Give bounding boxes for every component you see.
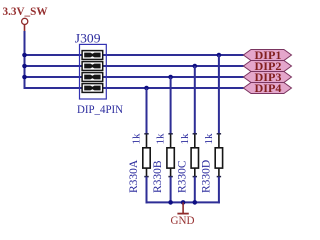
svg-text:3.3V_SW: 3.3V_SW <box>3 4 48 18</box>
resistor R330B <box>152 133 174 193</box>
wire: bottom ground bus <box>146 201 220 203</box>
junction dot ground bus GND stem <box>181 200 186 205</box>
junction dot left bus wire 1 <box>22 53 27 58</box>
wire: vertical branch to R330A <box>146 88 148 134</box>
svg-text:R330B: R330B <box>152 160 164 193</box>
junction dot wire 1 branch <box>217 53 222 58</box>
switch element 3 <box>82 73 103 82</box>
port DIP3 <box>243 72 291 85</box>
switch element 4 <box>82 84 103 93</box>
resistor R330C <box>176 133 198 193</box>
switch element 2 <box>82 62 103 71</box>
port DIP1 <box>243 50 291 63</box>
switch element 1 <box>82 51 103 60</box>
connector J309 body box <box>80 44 107 99</box>
wire 2 horizontal <box>24 65 244 67</box>
svg-text:1k: 1k <box>155 133 167 145</box>
svg-text:R330C: R330C <box>176 160 188 193</box>
junction dot left bus wire 3 <box>22 75 27 80</box>
svg-text:DIP4: DIP4 <box>255 83 282 95</box>
svg-text:1k: 1k <box>179 133 191 145</box>
resistor R330A <box>128 133 150 193</box>
wire: R330B lower segment <box>170 177 172 203</box>
wire: R330A lower segment <box>146 177 148 204</box>
junction dot wire 2 branch <box>193 64 198 69</box>
svg-text:R330A: R330A <box>128 159 140 193</box>
wire: R330D lower segment <box>218 177 220 204</box>
svg-text:1k: 1k <box>131 133 143 145</box>
junction dot wire 4 branch <box>144 86 149 91</box>
svg-text:1k: 1k <box>203 133 215 145</box>
port DIP4 <box>243 83 291 96</box>
wire: vertical branch to R330B <box>170 77 172 134</box>
svg-text:DIP_4PIN: DIP_4PIN <box>77 102 123 116</box>
svg-text:GND: GND <box>171 213 195 227</box>
wire 3 horizontal <box>24 76 244 78</box>
wire: vertical branch to R330C <box>194 66 196 134</box>
svg-text:R330D: R330D <box>200 160 212 193</box>
junction dot ground bus R330B <box>168 200 173 205</box>
wire 4 horizontal <box>24 87 244 89</box>
junction dot wire 3 branch <box>168 75 173 80</box>
wire: left vertical bus from power port down to wire 4 <box>24 31 26 88</box>
port DIP2 <box>243 61 291 74</box>
power port 3.3V_SW <box>3 4 48 31</box>
ground symbol GND <box>171 202 195 227</box>
wire 1 horizontal <box>24 54 244 56</box>
junction dot left bus wire 2 <box>22 64 27 69</box>
svg-text:J309: J309 <box>75 31 101 46</box>
resistor R330D <box>200 133 222 193</box>
junction dot ground bus R330C <box>193 200 198 205</box>
wire: vertical branch to R330D <box>218 55 220 134</box>
wire: R330C lower segment <box>194 177 196 203</box>
